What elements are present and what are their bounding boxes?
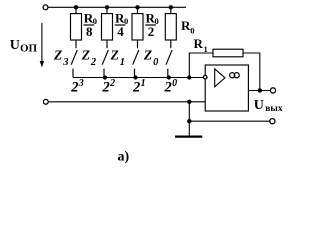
svg-text:8: 8: [86, 24, 93, 39]
svg-text:2: 2: [102, 80, 110, 96]
svg-text:2: 2: [164, 80, 172, 96]
svg-text:0: 0: [153, 57, 159, 68]
svg-text:1: 1: [204, 45, 208, 54]
svg-text:3: 3: [78, 78, 84, 89]
svg-text:вых: вых: [265, 104, 283, 114]
svg-text:Z: Z: [81, 47, 90, 62]
svg-text:а): а): [118, 150, 130, 165]
svg-text:1: 1: [120, 57, 125, 68]
svg-text:2: 2: [70, 80, 78, 96]
svg-text:Z: Z: [110, 47, 119, 62]
svg-text:1: 1: [141, 78, 146, 89]
svg-text:0: 0: [190, 26, 194, 36]
svg-text:Z: Z: [143, 47, 152, 62]
svg-text:U: U: [10, 38, 20, 53]
svg-text:2: 2: [148, 24, 155, 39]
svg-text:4: 4: [117, 24, 124, 39]
svg-text:2: 2: [132, 80, 140, 96]
svg-text:2: 2: [90, 57, 97, 68]
svg-text:0: 0: [172, 78, 177, 89]
svg-text:2: 2: [109, 78, 115, 89]
svg-text:3: 3: [62, 57, 68, 68]
svg-text:ОП: ОП: [20, 43, 38, 55]
svg-text:U: U: [254, 98, 264, 113]
svg-text:R: R: [194, 36, 204, 51]
svg-text:Z: Z: [53, 47, 62, 62]
